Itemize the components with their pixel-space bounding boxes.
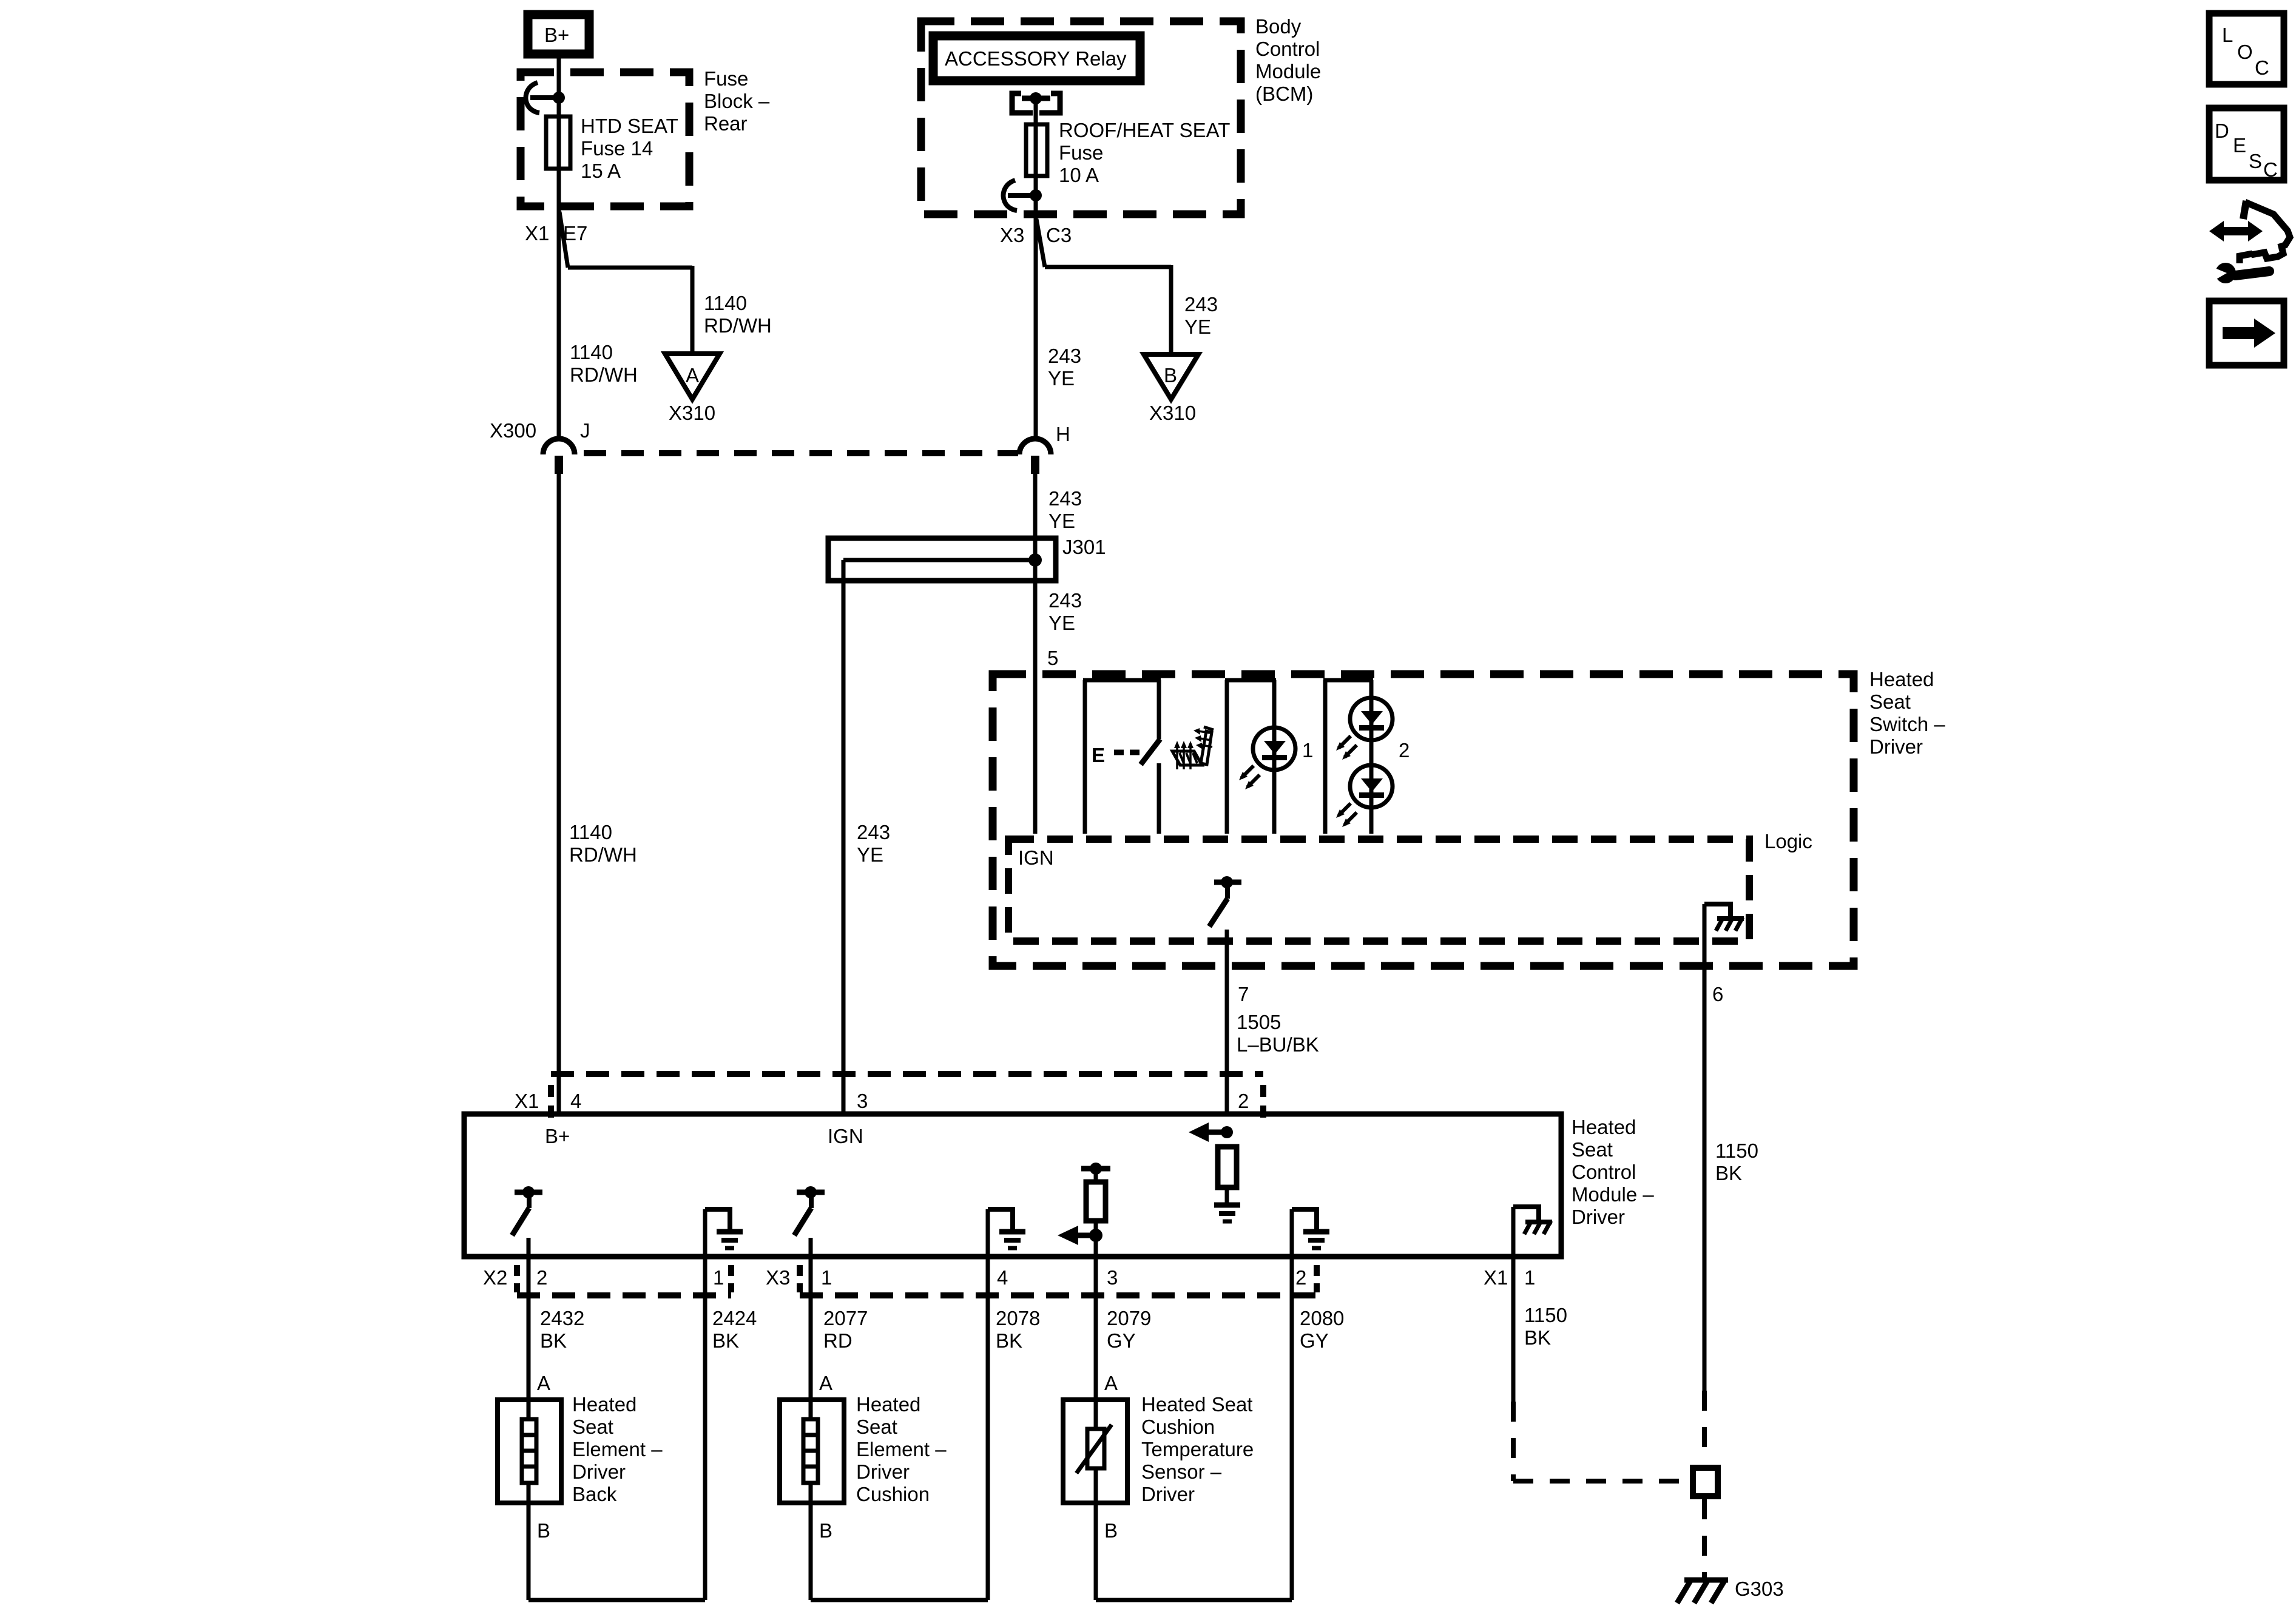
svg-text:ROOF/HEAT SEAT: ROOF/HEAT SEAT	[1059, 119, 1230, 141]
LED indicator 2 lower	[1336, 765, 1393, 827]
svg-text:E: E	[1092, 744, 1105, 766]
svg-text:BK: BK	[996, 1329, 1022, 1352]
internal sensor resistor	[1086, 1182, 1106, 1221]
svg-text:E: E	[2233, 134, 2246, 157]
wire label 243 YE below J301	[1048, 589, 1082, 634]
wire label 2077 RD	[823, 1307, 868, 1352]
svg-text:A: A	[686, 364, 699, 387]
wire pin2 chain	[1225, 1187, 1229, 1203]
fuse HTD SEAT Fuse 14	[546, 116, 570, 169]
svg-text:3: 3	[1107, 1266, 1118, 1289]
wire 1150 BK dashed run	[1513, 1402, 1686, 1481]
Heated Seat Switch - Driver dashed box	[993, 674, 1854, 966]
svg-text:S: S	[2249, 150, 2262, 172]
svg-text:Driver: Driver	[1141, 1483, 1195, 1505]
svg-text:G303: G303	[1735, 1578, 1784, 1600]
internal pin2 input arrow	[1189, 1122, 1233, 1142]
wire label 1140 RD/WH (mid)	[569, 821, 637, 866]
svg-text:YE: YE	[1184, 316, 1211, 338]
wire 2080 GY pin X3-2	[1290, 1257, 1294, 1600]
Heated Seat Element - Driver Back	[498, 1400, 561, 1503]
svg-text:L: L	[2222, 24, 2233, 46]
go-to arrow icon box	[2209, 301, 2284, 365]
connector X300 labels	[490, 419, 590, 442]
svg-text:YE: YE	[1048, 612, 1075, 634]
svg-text:2078: 2078	[996, 1307, 1040, 1329]
internal sensor output arrow	[1058, 1221, 1102, 1257]
svg-text:Body: Body	[1255, 15, 1302, 38]
svg-text:6: 6	[1712, 983, 1723, 1005]
svg-text:Switch –: Switch –	[1869, 713, 1945, 735]
svg-text:Module: Module	[1255, 60, 1321, 83]
wire pin 7 down to module pin 2	[1225, 930, 1229, 1114]
switch upper contact	[1157, 680, 1161, 739]
svg-text:Seat: Seat	[572, 1416, 613, 1438]
connector triangle B X310	[1144, 354, 1198, 399]
wire branch horizontal to X310 A	[568, 266, 692, 270]
wire label 1140 RD/WH (branch)	[704, 292, 772, 337]
wire B+ to fuse block	[557, 58, 561, 437]
LED 2 branch left leg	[1323, 680, 1328, 834]
svg-text:243: 243	[1184, 293, 1218, 316]
module top pin labels	[515, 1090, 1249, 1112]
ACCESSORY Relay box	[933, 36, 1140, 81]
svg-text:BK: BK	[712, 1329, 739, 1352]
wire loop element back	[528, 1598, 705, 1602]
svg-text:B+: B+	[545, 1125, 570, 1147]
svg-text:1150: 1150	[1524, 1304, 1567, 1326]
svg-text:ACCESSORY Relay: ACCESSORY Relay	[945, 47, 1127, 70]
svg-text:2: 2	[1399, 739, 1410, 761]
svg-text:A: A	[819, 1372, 832, 1394]
svg-text:BK: BK	[1524, 1326, 1551, 1349]
svg-text:X2: X2	[483, 1266, 507, 1289]
splice junction box	[1693, 1468, 1718, 1496]
svg-text:Heated: Heated	[572, 1393, 636, 1416]
BCM terminal clip	[1004, 180, 1042, 211]
wire 1140 RD/WH down to module pin 4	[557, 474, 561, 1114]
relay contact output symbol	[1012, 92, 1060, 113]
Logic dashed box	[1008, 839, 1749, 941]
connector X3 pin C3 labels	[1000, 224, 1072, 246]
wire down to triangle A	[690, 266, 695, 354]
svg-text:243: 243	[1048, 487, 1082, 510]
wire branch diagonal at E7	[559, 212, 568, 268]
svg-text:X310: X310	[669, 402, 715, 424]
connector triangle A X310	[665, 354, 720, 399]
svg-text:Element –: Element –	[572, 1438, 663, 1460]
bottom connector X3 dashed group	[800, 1265, 1317, 1295]
fuse ROOF/HEAT SEAT	[1026, 124, 1047, 176]
svg-text:Heated: Heated	[856, 1393, 920, 1416]
svg-text:A: A	[1104, 1372, 1118, 1394]
sensor label	[1141, 1393, 1254, 1505]
internal switch driver cushion	[794, 1186, 825, 1257]
svg-text:243: 243	[1048, 345, 1081, 367]
svg-text:Cushion: Cushion	[1141, 1416, 1215, 1438]
svg-text:7: 7	[1238, 983, 1249, 1005]
svg-text:243: 243	[1048, 589, 1082, 612]
svg-text:2: 2	[536, 1266, 547, 1289]
svg-text:Rear: Rear	[704, 112, 748, 135]
svg-text:GY: GY	[1107, 1329, 1136, 1352]
svg-text:Block –: Block –	[704, 90, 770, 112]
svg-text:Cushion: Cushion	[856, 1483, 930, 1505]
logic output switch pin 7	[1209, 876, 1241, 927]
internal sensor input stub	[1081, 1163, 1110, 1182]
wire label 243 YE (main)	[1048, 345, 1081, 390]
switch blade	[1141, 739, 1160, 765]
wire switch pin 6 down	[1703, 904, 1707, 1391]
wire label 2078 BK	[996, 1307, 1040, 1352]
module label	[1572, 1116, 1654, 1228]
LED 2 branch right leg	[1369, 680, 1374, 834]
switch branch left leg	[1083, 680, 1087, 834]
Fuse Block - Rear label	[704, 67, 770, 135]
connector X1 pin E7 labels	[525, 222, 587, 245]
svg-text:Heated: Heated	[1869, 668, 1934, 690]
svg-text:X1: X1	[515, 1090, 539, 1112]
heated seat icon	[1172, 727, 1214, 769]
switch actuator E symbol	[1092, 744, 1140, 766]
wire pin6 dashed run to splice	[1702, 1391, 1707, 1462]
svg-text:Control: Control	[1255, 38, 1320, 60]
svg-text:Heated Seat: Heated Seat	[1141, 1393, 1252, 1416]
svg-text:J: J	[580, 419, 590, 442]
svg-text:Fuse 14: Fuse 14	[581, 137, 653, 160]
svg-text:Seat: Seat	[1869, 690, 1911, 713]
LED indicator 2 upper	[1336, 698, 1393, 760]
internal switch driver back	[512, 1186, 542, 1257]
svg-text:X1: X1	[1484, 1266, 1508, 1289]
svg-text:RD/WH: RD/WH	[570, 363, 638, 386]
svg-text:Heated: Heated	[1572, 1116, 1636, 1138]
svg-text:C3: C3	[1046, 224, 1072, 246]
wire loop sensor	[1096, 1598, 1292, 1602]
svg-text:2: 2	[1295, 1266, 1306, 1289]
svg-text:L–BU/BK: L–BU/BK	[1237, 1033, 1319, 1056]
LED 1 branch right leg	[1272, 680, 1277, 834]
module top connector dashed line X1	[551, 1074, 1263, 1121]
svg-text:Sensor –: Sensor –	[1141, 1460, 1222, 1483]
wire label 2079 GY	[1107, 1307, 1151, 1352]
LED 1 branch left leg	[1225, 680, 1229, 834]
svg-text:B: B	[1104, 1519, 1118, 1542]
svg-text:YE: YE	[857, 843, 883, 866]
element cushion label	[856, 1393, 947, 1505]
svg-text:X300: X300	[490, 419, 536, 442]
svg-text:J301: J301	[1062, 536, 1106, 558]
svg-text:H: H	[1056, 423, 1070, 445]
svg-text:X1: X1	[525, 222, 549, 245]
Heated Seat Element - Driver Cushion	[780, 1400, 844, 1503]
svg-text:1505: 1505	[1237, 1011, 1281, 1033]
wire 2077 RD pin X3-1	[809, 1257, 813, 1600]
connector H arc X300	[1019, 439, 1051, 474]
internal ground c	[1292, 1209, 1329, 1257]
svg-text:1140: 1140	[704, 292, 747, 314]
internal ground b	[988, 1209, 1025, 1257]
svg-text:B+: B+	[544, 24, 569, 46]
svg-text:X3: X3	[1000, 224, 1024, 246]
svg-text:Logic: Logic	[1764, 830, 1812, 852]
svg-text:1: 1	[713, 1266, 724, 1289]
svg-text:YE: YE	[1048, 510, 1075, 532]
logic internal ground	[1704, 904, 1744, 931]
svg-text:BK: BK	[540, 1329, 567, 1352]
svg-text:Driver: Driver	[1572, 1206, 1625, 1228]
wire label 243 YE (branch)	[1184, 293, 1218, 338]
svg-text:Fuse: Fuse	[704, 67, 748, 90]
svg-text:243: 243	[857, 821, 890, 843]
svg-text:E7: E7	[563, 222, 587, 245]
svg-text:O: O	[2237, 41, 2253, 63]
BCM label	[1255, 15, 1321, 105]
svg-text:D: D	[2215, 120, 2229, 142]
wire 2079 GY pin X3-3	[1094, 1257, 1098, 1600]
fuse value label	[1059, 119, 1230, 186]
svg-text:GY: GY	[1300, 1329, 1329, 1352]
wire label 2424 BK	[712, 1307, 757, 1352]
wire down to triangle B	[1169, 265, 1173, 354]
module bottom pin labels	[483, 1266, 1535, 1289]
element back label	[572, 1393, 663, 1505]
fuse value label	[581, 115, 678, 182]
svg-text:4: 4	[997, 1266, 1008, 1289]
wire label 2432 BK	[540, 1307, 584, 1352]
DESC icon box	[2209, 108, 2284, 181]
svg-text:Fuse: Fuse	[1059, 141, 1103, 164]
svg-text:Module –: Module –	[1572, 1183, 1654, 1206]
svg-text:2077: 2077	[823, 1307, 868, 1329]
wire branch diagonal at C3	[1036, 219, 1045, 267]
X300 inline connector dashed line	[584, 450, 1018, 456]
svg-text:Driver: Driver	[1869, 735, 1923, 758]
wire label 1505 L-BU/BK	[1237, 1011, 1319, 1056]
svg-text:Driver: Driver	[572, 1460, 626, 1483]
wire relay to BCM exit	[1034, 98, 1038, 439]
svg-text:4: 4	[570, 1090, 581, 1112]
svg-text:2079: 2079	[1107, 1307, 1151, 1329]
svg-text:IGN: IGN	[1018, 846, 1054, 869]
ground G303	[1677, 1579, 1728, 1603]
bottom connector X2 dashed group	[517, 1265, 731, 1295]
svg-text:2432: 2432	[540, 1307, 584, 1329]
svg-text:BK: BK	[1715, 1162, 1742, 1184]
wire label 1150 BK (bottom)	[1524, 1304, 1567, 1349]
svg-text:1140: 1140	[569, 821, 612, 843]
svg-text:1150: 1150	[1715, 1139, 1758, 1162]
wire label 243 YE above J301	[1048, 487, 1082, 532]
svg-text:HTD SEAT: HTD SEAT	[581, 115, 678, 137]
LOC icon box	[2209, 13, 2284, 84]
internal ground a	[705, 1209, 743, 1257]
svg-text:C: C	[2263, 158, 2278, 181]
svg-text:Seat: Seat	[1572, 1138, 1613, 1161]
svg-text:Element –: Element –	[856, 1438, 947, 1460]
wire branch horizontal to X310 B	[1045, 265, 1171, 269]
svg-text:10 A: 10 A	[1059, 164, 1099, 186]
LED 2 branch top wire	[1323, 678, 1373, 683]
connector J arc X300	[543, 439, 575, 474]
wire 243 YE down to J301	[1033, 474, 1038, 834]
Heated Seat Switch label	[1869, 668, 1945, 758]
svg-text:2424: 2424	[712, 1307, 757, 1329]
wire label 1140 RD/WH (main)	[570, 341, 638, 386]
svg-text:Seat: Seat	[856, 1416, 897, 1438]
LED 1 branch top wire	[1225, 678, 1276, 683]
Body Control Module (BCM) dashed box	[921, 21, 1241, 214]
svg-text:15 A: 15 A	[581, 160, 621, 182]
internal pin2 earth ground	[1214, 1205, 1240, 1221]
wire 243 YE from J301 to module pin 3	[842, 560, 846, 1114]
svg-text:X3: X3	[766, 1266, 790, 1289]
Heated Seat Control Module - Driver box	[464, 1114, 1561, 1257]
switch branch top wire	[1083, 678, 1161, 683]
svg-text:YE: YE	[1048, 367, 1075, 390]
svg-text:1: 1	[1524, 1266, 1535, 1289]
svg-text:X310: X310	[1149, 402, 1196, 424]
svg-text:RD/WH: RD/WH	[569, 843, 637, 866]
LED indicator 1	[1239, 727, 1295, 789]
svg-text:(BCM): (BCM)	[1255, 83, 1313, 105]
switch lower contact	[1157, 763, 1161, 834]
diagnostic arrow-wrench icon	[2209, 201, 2290, 283]
svg-text:Control: Control	[1572, 1161, 1636, 1183]
wire 2078 BK pin X3-4	[986, 1257, 990, 1600]
svg-text:2080: 2080	[1300, 1307, 1344, 1329]
splice J301 box	[828, 538, 1056, 581]
B+ power symbol	[528, 15, 589, 54]
svg-text:Back: Back	[572, 1483, 617, 1505]
svg-text:A: A	[537, 1372, 550, 1394]
wire 2432 BK pin X2-2	[527, 1257, 531, 1600]
svg-text:B: B	[1164, 364, 1177, 387]
svg-text:Driver: Driver	[856, 1460, 910, 1483]
svg-text:1: 1	[821, 1266, 832, 1289]
svg-text:B: B	[537, 1519, 550, 1542]
wire loop element cushion	[811, 1598, 988, 1602]
svg-text:5: 5	[1047, 647, 1058, 669]
svg-text:3: 3	[857, 1090, 868, 1112]
svg-text:1: 1	[1302, 739, 1313, 761]
Fuse Block - Rear dashed box	[521, 72, 689, 206]
svg-text:Temperature: Temperature	[1141, 1438, 1254, 1460]
dashed run splice to G303	[1702, 1499, 1707, 1578]
svg-text:1140: 1140	[570, 341, 613, 363]
svg-text:RD/WH: RD/WH	[704, 314, 772, 337]
fuse block terminal clip	[526, 83, 565, 113]
internal chassis ground pin1	[1513, 1207, 1552, 1257]
internal pin2 resistor	[1218, 1147, 1237, 1187]
svg-text:RD: RD	[823, 1329, 853, 1352]
Heated Seat Cushion Temperature Sensor - Driver	[1063, 1400, 1127, 1503]
svg-text:B: B	[819, 1519, 832, 1542]
wire 2424 BK pin X2-1	[703, 1257, 707, 1600]
svg-text:2: 2	[1238, 1090, 1249, 1112]
wire label 2080 GY	[1300, 1307, 1344, 1352]
svg-text:C: C	[2255, 56, 2269, 79]
wire label 243 YE (mid)	[857, 821, 890, 866]
wire 1150 BK pin X1-1	[1511, 1257, 1516, 1402]
wire label 1150 BK (right)	[1715, 1139, 1758, 1184]
svg-text:IGN: IGN	[828, 1125, 863, 1147]
